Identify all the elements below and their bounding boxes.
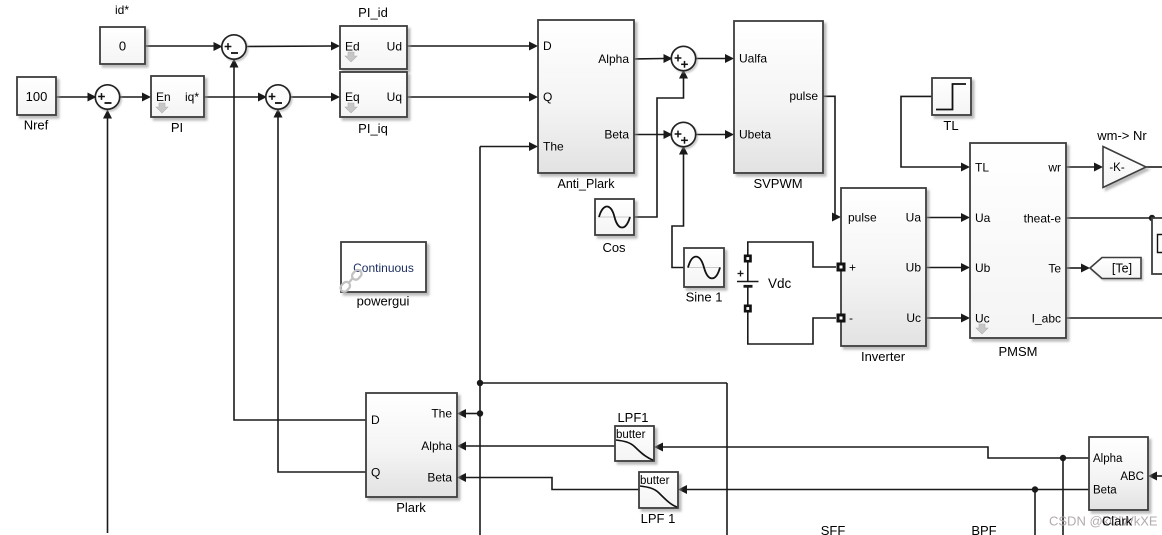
svg-text:Ubeta: Ubeta [739,128,771,142]
svg-text:Cos: Cos [602,240,626,255]
svg-text:Ub: Ub [975,261,991,275]
svg-text:Q: Q [371,466,380,480]
svg-text:I_abc: I_abc [1032,312,1061,326]
svg-text:BPF: BPF [971,523,996,535]
svg-text:LPF 1: LPF 1 [641,511,676,526]
svg-text:Beta: Beta [604,128,629,142]
svg-text:Eq: Eq [345,90,360,104]
svg-text:Te: Te [1048,262,1061,276]
svg-text:Alpha: Alpha [1093,453,1123,465]
svg-text:TL: TL [975,161,989,175]
svg-text:id*: id* [115,3,129,17]
svg-text:The: The [543,140,564,154]
svg-text:100: 100 [26,89,48,104]
svg-text:Beta: Beta [427,471,452,485]
svg-text:-K-: -K- [1109,162,1125,174]
svg-text:Nref: Nref [24,118,49,133]
svg-text:theat-e: theat-e [1024,212,1062,226]
svg-text:pulse: pulse [848,211,877,225]
svg-text:PI_id: PI_id [358,5,388,20]
svg-text:SFF: SFF [821,523,846,535]
svg-text:Uc: Uc [906,311,921,325]
svg-text:wr: wr [1047,161,1061,175]
svg-text:[Te]: [Te] [1112,262,1132,276]
svg-text:Ualfa: Ualfa [739,52,767,66]
svg-text:D: D [371,413,380,427]
svg-text:0: 0 [119,39,126,54]
svg-text:Uq: Uq [387,90,402,104]
svg-text:PI_iq: PI_iq [358,121,388,136]
svg-text:Alpha: Alpha [421,439,452,453]
svg-text:iq*: iq* [185,90,199,104]
svg-text:Ed: Ed [345,40,360,54]
svg-text:butter: butter [616,429,646,441]
svg-text:-: - [849,311,853,325]
svg-text:+: + [849,261,856,275]
svg-text:PI: PI [171,120,183,135]
svg-text:wm-> Nr: wm-> Nr [1096,128,1147,143]
svg-text:Ud: Ud [387,40,402,54]
svg-text:Uc: Uc [975,312,990,326]
svg-text:ABC: ABC [1120,471,1144,483]
svg-text:Vdc: Vdc [768,276,792,291]
svg-text:powergui: powergui [357,294,410,309]
svg-text:LPF1: LPF1 [617,410,648,425]
svg-text:Anti_Plark: Anti_Plark [558,177,616,191]
svg-text:TL: TL [943,118,958,133]
svg-text:Ua: Ua [975,211,991,225]
svg-text:Plark: Plark [396,500,426,515]
svg-text:pulse: pulse [789,89,818,103]
svg-text:Inverter: Inverter [861,349,906,364]
svg-text:Q: Q [543,90,552,104]
svg-text:En: En [156,90,171,104]
svg-text:D: D [543,39,552,53]
svg-text:Beta: Beta [1093,485,1117,497]
svg-text:butter: butter [640,475,670,487]
svg-text:Alpha: Alpha [598,52,629,66]
svg-text:Ub: Ub [906,261,922,275]
svg-text:The: The [431,407,452,421]
svg-text:Clark: Clark [1102,514,1133,529]
svg-text:PMSM: PMSM [999,344,1038,359]
svg-text:Ua: Ua [906,211,922,225]
svg-text:SVPWM: SVPWM [753,176,802,191]
svg-text:Sine 1: Sine 1 [686,290,723,305]
